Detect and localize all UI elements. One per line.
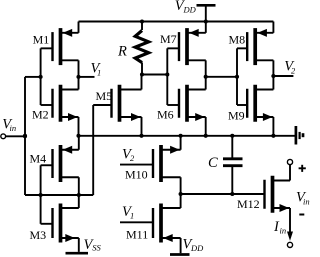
svg-text:M9: M9 [228, 109, 245, 123]
svg-text:SS: SS [92, 243, 101, 253]
svg-text:M5: M5 [96, 89, 113, 103]
svg-text:R: R [117, 43, 127, 59]
svg-text:DD: DD [183, 5, 197, 15]
svg-text:1: 1 [130, 211, 134, 221]
svg-text:1: 1 [97, 68, 101, 78]
svg-text:M2: M2 [32, 107, 49, 121]
svg-text:DD: DD [190, 243, 204, 253]
svg-text:C: C [208, 155, 218, 171]
svg-text:in: in [303, 196, 310, 206]
svg-text:M8: M8 [229, 33, 246, 47]
svg-text:in: in [10, 123, 17, 133]
svg-text:M11: M11 [126, 228, 148, 242]
svg-text:M12: M12 [237, 197, 260, 211]
svg-text:in: in [280, 226, 287, 236]
svg-text:M6: M6 [157, 108, 174, 122]
svg-text:M7: M7 [160, 32, 177, 46]
svg-text:M10: M10 [125, 168, 148, 182]
svg-text:M3: M3 [30, 228, 47, 242]
svg-text:M4: M4 [30, 152, 47, 166]
svg-text:M1: M1 [33, 33, 50, 47]
